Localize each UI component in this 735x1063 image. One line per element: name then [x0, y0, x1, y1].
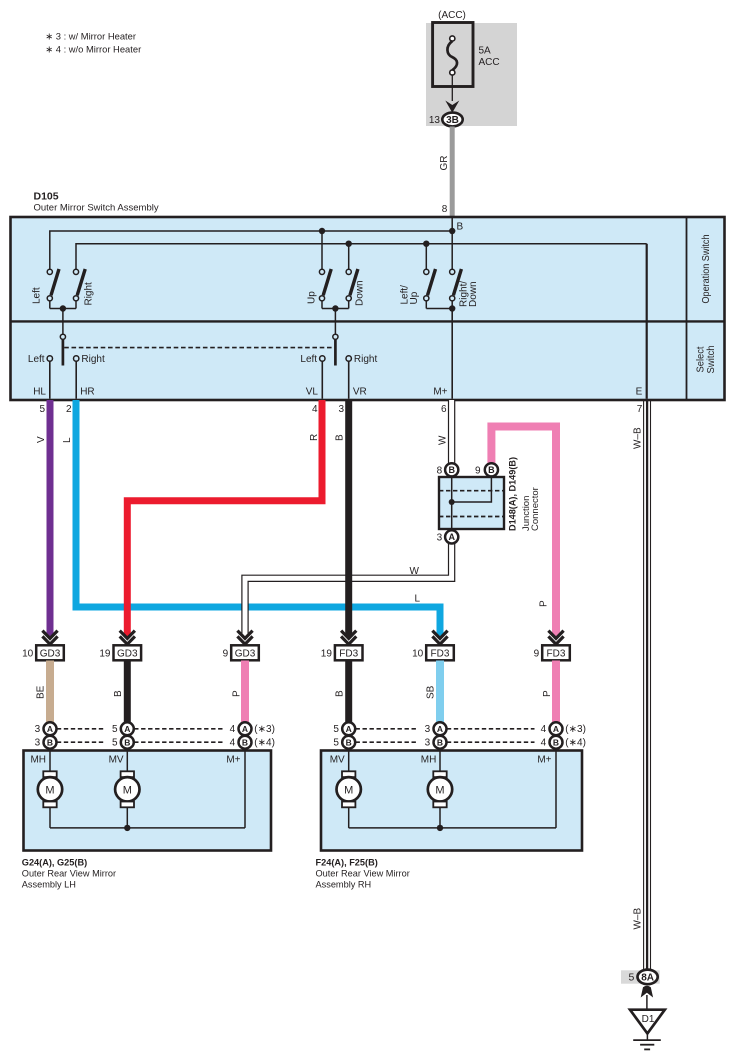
svg-text:Assembly LH: Assembly LH: [22, 880, 76, 890]
svg-text:(∗3): (∗3): [565, 724, 586, 735]
svg-text:Up: Up: [409, 291, 420, 304]
svg-text:6: 6: [441, 404, 447, 415]
svg-text:ACC: ACC: [479, 57, 500, 68]
svg-text:M+: M+: [226, 755, 240, 766]
svg-text:GD3: GD3: [235, 648, 256, 659]
svg-text:M+: M+: [433, 387, 447, 398]
svg-text:R: R: [309, 434, 320, 441]
svg-text:FD3: FD3: [547, 648, 566, 659]
svg-text:W: W: [438, 435, 449, 445]
svg-text:3: 3: [437, 532, 443, 543]
svg-text:13: 13: [429, 115, 441, 126]
svg-text:B: B: [124, 737, 130, 747]
svg-text:Right: Right: [354, 354, 378, 365]
svg-text:Down: Down: [468, 281, 479, 307]
svg-text:GD3: GD3: [40, 648, 61, 659]
svg-text:A: A: [124, 724, 130, 734]
svg-text:V: V: [36, 436, 47, 443]
svg-text:3B: 3B: [446, 115, 459, 126]
svg-text:Operation Switch: Operation Switch: [701, 235, 712, 304]
svg-text:MH: MH: [421, 755, 437, 766]
svg-text:SB: SB: [426, 685, 437, 699]
svg-text:A: A: [437, 724, 443, 734]
svg-text:3: 3: [425, 724, 431, 735]
svg-text:4: 4: [541, 724, 547, 735]
svg-text:F24(A), F25(B): F24(A), F25(B): [316, 858, 378, 868]
svg-text:FD3: FD3: [431, 648, 450, 659]
svg-text:L: L: [62, 437, 73, 443]
svg-text:∗ 4 : w/o Mirror Heater: ∗ 4 : w/o Mirror Heater: [45, 44, 141, 55]
svg-text:M: M: [344, 784, 353, 796]
svg-text:MV: MV: [330, 755, 345, 766]
svg-text:∗ 3 : w/ Mirror Heater: ∗ 3 : w/ Mirror Heater: [45, 31, 136, 42]
svg-text:B: B: [553, 737, 559, 747]
svg-text:B: B: [113, 690, 124, 697]
svg-text:9: 9: [534, 648, 540, 659]
svg-text:A: A: [346, 724, 352, 734]
svg-text:B: B: [346, 737, 352, 747]
svg-text:(∗3): (∗3): [254, 724, 275, 735]
svg-text:Switch: Switch: [706, 346, 717, 374]
svg-text:A: A: [47, 724, 53, 734]
svg-text:D105: D105: [34, 191, 59, 203]
svg-text:Right: Right: [84, 282, 95, 306]
svg-text:Right: Right: [81, 354, 105, 365]
svg-text:L: L: [414, 594, 420, 605]
svg-text:4: 4: [230, 724, 236, 735]
svg-text:Down: Down: [355, 280, 366, 306]
svg-text:3: 3: [35, 738, 41, 749]
svg-text:M: M: [45, 784, 54, 796]
svg-text:P: P: [542, 690, 553, 697]
svg-text:9: 9: [223, 648, 229, 659]
svg-text:(∗4): (∗4): [254, 738, 275, 749]
svg-text:10: 10: [22, 648, 34, 659]
svg-text:A: A: [448, 532, 455, 542]
svg-text:Outer Rear View Mirror: Outer Rear View Mirror: [316, 869, 410, 879]
svg-text:7: 7: [637, 404, 643, 415]
svg-text:(ACC): (ACC): [438, 10, 466, 21]
svg-text:W–B: W–B: [632, 427, 643, 449]
svg-text:B: B: [47, 737, 53, 747]
svg-text:19: 19: [99, 648, 111, 659]
svg-text:5: 5: [333, 738, 339, 749]
svg-text:Left: Left: [300, 354, 317, 365]
svg-text:4: 4: [541, 738, 547, 749]
svg-text:5: 5: [333, 724, 339, 735]
svg-text:VL: VL: [306, 387, 319, 398]
svg-text:8: 8: [442, 204, 448, 215]
svg-text:FD3: FD3: [339, 648, 358, 659]
svg-text:4: 4: [230, 738, 236, 749]
svg-text:G24(A), G25(B): G24(A), G25(B): [22, 858, 87, 868]
svg-text:Left: Left: [28, 354, 45, 365]
svg-text:Outer Rear View Mirror: Outer Rear View Mirror: [22, 869, 116, 879]
svg-text:B: B: [335, 434, 346, 441]
svg-text:A: A: [553, 724, 559, 734]
svg-text:P: P: [538, 600, 549, 607]
svg-text:Outer Mirror Switch Assembly: Outer Mirror Switch Assembly: [34, 203, 159, 214]
svg-text:B: B: [457, 222, 464, 233]
svg-text:MV: MV: [109, 755, 124, 766]
svg-text:19: 19: [321, 648, 333, 659]
svg-text:2: 2: [66, 404, 72, 415]
svg-text:M+: M+: [537, 755, 551, 766]
svg-text:5: 5: [39, 404, 45, 415]
svg-text:3: 3: [35, 724, 41, 735]
svg-text:M: M: [435, 784, 444, 796]
svg-text:VR: VR: [353, 387, 367, 398]
svg-text:M: M: [123, 784, 132, 796]
svg-text:B: B: [335, 690, 346, 697]
svg-text:Assembly RH: Assembly RH: [316, 880, 372, 890]
svg-text:Up: Up: [306, 291, 317, 304]
svg-text:GR: GR: [439, 156, 450, 171]
svg-text:HR: HR: [80, 387, 94, 398]
svg-text:9: 9: [475, 465, 481, 476]
svg-text:5A: 5A: [479, 46, 492, 57]
svg-text:10: 10: [412, 648, 424, 659]
svg-text:5: 5: [628, 972, 634, 984]
svg-text:3: 3: [338, 404, 344, 415]
svg-text:8A: 8A: [641, 972, 654, 983]
svg-text:HL: HL: [33, 387, 46, 398]
svg-text:B: B: [242, 737, 248, 747]
svg-text:Left: Left: [32, 287, 43, 304]
svg-text:E: E: [636, 387, 643, 398]
svg-text:P: P: [231, 690, 242, 697]
svg-text:8: 8: [437, 465, 443, 476]
svg-text:B: B: [437, 737, 443, 747]
svg-text:A: A: [242, 724, 248, 734]
svg-text:W: W: [410, 566, 420, 577]
svg-text:(∗4): (∗4): [565, 738, 586, 749]
svg-text:W–B: W–B: [632, 908, 643, 930]
svg-text:Connector: Connector: [530, 487, 541, 531]
svg-text:D148(A), D149(B): D148(A), D149(B): [508, 457, 518, 531]
svg-text:5: 5: [112, 724, 118, 735]
svg-text:4: 4: [312, 404, 318, 415]
svg-text:MH: MH: [30, 755, 46, 766]
svg-text:D1: D1: [642, 1014, 655, 1025]
svg-text:B: B: [448, 465, 455, 475]
svg-text:GD3: GD3: [117, 648, 138, 659]
svg-text:BE: BE: [36, 685, 47, 699]
svg-text:3: 3: [425, 738, 431, 749]
svg-text:B: B: [488, 465, 495, 475]
svg-text:5: 5: [112, 738, 118, 749]
